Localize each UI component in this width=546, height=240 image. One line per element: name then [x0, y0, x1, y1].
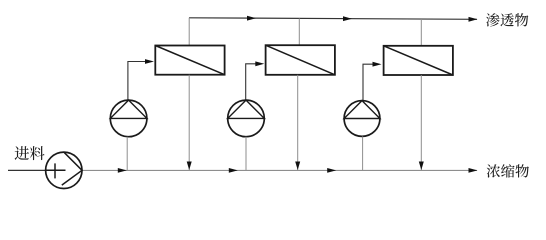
arrow on permeate header segment 2 [343, 16, 352, 21]
wire pump P3 discharge to module M2 [246, 64, 257, 100]
arrow into module M3 inlet [373, 62, 382, 67]
wire suction branch to pump P2 [126, 137, 128, 171]
arrow into concentrate header from M1 [187, 162, 192, 171]
arrow on permeate header segment 1 [247, 16, 256, 21]
wire concentrate drop from module M3 [420, 75, 422, 170]
pump P2 [110, 100, 147, 137]
arrow into concentrate header from M2 [295, 162, 300, 171]
arrow into concentrate header from M3 [419, 162, 424, 171]
wire permeate riser from module M3 [420, 19, 422, 46]
wire pump P4 discharge to module M3 [363, 64, 373, 101]
arrow into module M2 inlet [255, 61, 264, 66]
wire concentrate drop from module M1 [188, 75, 190, 171]
arrow concentrate outlet [469, 168, 478, 173]
label 渗透物 (permeate) [486, 13, 528, 26]
label 浓缩物 (concentrate) [487, 164, 529, 177]
wire suction branch to pump P4 [362, 136, 364, 170]
arrow on concentrate header at P2 branch [118, 168, 127, 173]
pump P4 [344, 101, 380, 137]
arrow permeate outlet [469, 17, 478, 22]
pump P3 [228, 100, 265, 137]
wire concentrate header [82, 169, 477, 171]
wire suction branch to pump P3 [245, 137, 247, 171]
arrow on concentrate header before P4 branch [327, 168, 336, 173]
membrane module M2 [266, 45, 335, 75]
label 进料 (feed) [15, 146, 45, 160]
arrow into module M1 inlet [145, 59, 154, 64]
wire pump P2 discharge to module M1 [128, 62, 146, 101]
wire permeate riser from module M1 [188, 18, 190, 46]
membrane module M3 [384, 46, 453, 75]
pump P1 (feed pump) [46, 152, 82, 188]
wire feed inlet line [8, 169, 46, 171]
wire permeate riser from module M2 [298, 18, 300, 45]
wire permeate header [189, 18, 477, 20]
membrane module M1 [155, 46, 224, 75]
arrow on concentrate header before P3 branch [229, 168, 238, 173]
wire concentrate drop from module M2 [297, 75, 299, 171]
